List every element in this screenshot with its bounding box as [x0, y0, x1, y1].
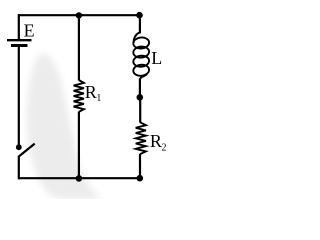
node: top right corner: [136, 12, 143, 19]
wire: left vertical from battery to switch contact: [18, 47, 20, 145]
label R2: [150, 131, 167, 153]
inductor L: [133, 32, 150, 79]
wire: right branch lead from inductor to middle node: [139, 79, 141, 99]
wire: bottom rail from left corner to right node: [19, 177, 140, 179]
svg-text:2: 2: [162, 142, 167, 153]
node: between L and R2: [137, 94, 144, 101]
label R1: [85, 82, 102, 104]
wire: middle branch lower lead: [78, 112, 80, 179]
battery E: [7, 40, 32, 45]
svg-text:E: E: [24, 20, 35, 40]
wire: middle branch upper lead: [78, 15, 80, 80]
wire: left vertical from top rail down to battery top plate: [18, 14, 20, 39]
svg-text:R: R: [85, 82, 97, 102]
wire: right branch lead from R2 to bottom rail: [139, 154, 141, 178]
svg-text:L: L: [151, 48, 162, 68]
node: junction of middle branch with top rail: [76, 12, 82, 18]
node: junction of middle branch with bottom rail: [76, 175, 83, 182]
switch S1 arm (open): [19, 144, 34, 156]
svg-text:R: R: [150, 131, 162, 151]
wire: right branch lead from top node to inductor: [139, 15, 141, 33]
wire: right branch lead from middle node to R2: [139, 97, 141, 122]
svg-text:1: 1: [96, 93, 101, 104]
resistor R2: [136, 122, 146, 154]
wire: top rail from left corner to right node: [19, 14, 140, 16]
wire: left vertical from switch arm down to bottom rail: [18, 156, 20, 180]
switch S1 contact node: [16, 144, 22, 150]
node: bottom right corner: [137, 175, 144, 182]
resistor R1: [74, 80, 84, 112]
